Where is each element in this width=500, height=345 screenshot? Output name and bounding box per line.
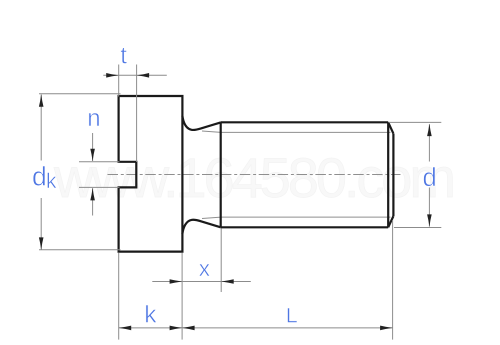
- svg-text:n: n: [87, 105, 100, 132]
- svg-text:L: L: [286, 304, 298, 328]
- svg-text:www.164580.com: www.164580.com: [53, 146, 456, 209]
- svg-text:k: k: [46, 170, 57, 193]
- svg-text:k: k: [144, 302, 157, 329]
- svg-text:t: t: [120, 42, 127, 69]
- svg-text:d: d: [32, 162, 47, 192]
- svg-text:d: d: [423, 164, 437, 192]
- svg-text:x: x: [199, 256, 211, 281]
